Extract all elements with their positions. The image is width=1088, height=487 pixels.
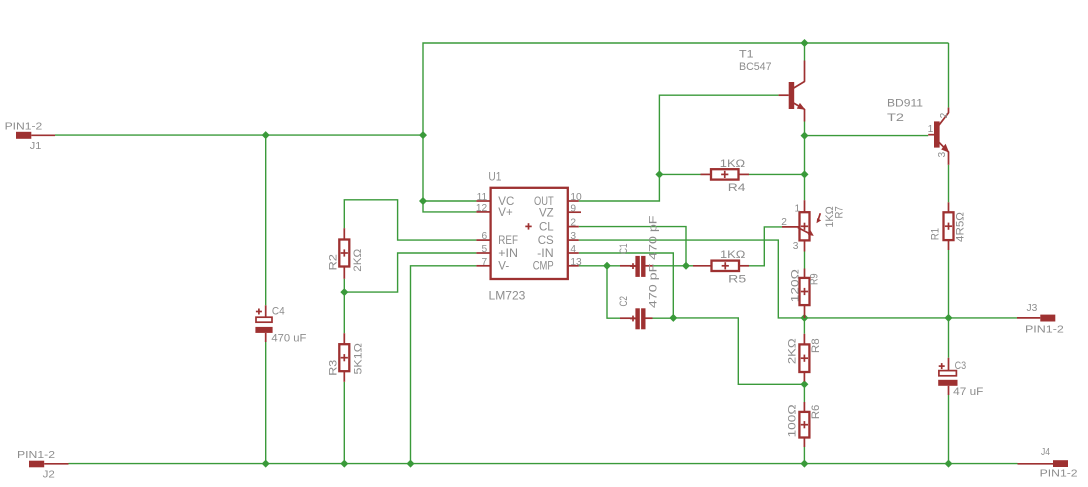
T2 pin number 1 [928,124,934,135]
label 4R5&#937; of R1 [954,212,966,242]
label 120&#937; of R9 [790,269,802,302]
svg-text:C3: C3 [955,360,967,372]
U1 pin label V+ [498,207,513,219]
wire R5 right to R7 wiper [749,227,782,266]
U1 pin label +IN [498,248,518,260]
wire C2 right short wire [653,317,674,319]
U1 pin label V- [498,261,509,273]
U1 pin 7 stub [476,265,490,267]
svg-text:2: 2 [781,217,787,228]
wire C3 top lead wire [948,318,950,358]
wire C1 left node to C1 [607,265,629,267]
label 2K&#937; of R2 [352,249,364,272]
U1 pin label CS [538,235,554,247]
connector J2 pad [29,461,69,468]
svg-text:C4: C4 [272,306,285,318]
svg-text:J2: J2 [43,470,56,481]
svg-text:10: 10 [570,192,582,203]
junction J3 row / R9-R8 column [800,314,808,322]
connector J1 pad [16,132,55,139]
wire C3 bottom to bottom rail [948,395,950,464]
U1 pin 13 stub [568,265,579,267]
svg-text:1KΩ: 1KΩ [720,249,745,261]
svg-text:1: 1 [928,124,934,135]
svg-text:2KΩ: 2KΩ [786,338,798,364]
label BC547 of T1 [739,61,772,73]
wire R4 right to T1 emitter column [749,173,805,175]
svg-text:5K1Ω: 5K1Ω [353,343,365,375]
svg-text:R6: R6 [810,405,822,420]
U1 error-amp + marker [525,223,531,229]
label J2 [43,470,56,481]
potentiometer R7 body [782,200,821,251]
wire U1 CL pin2 down to C1/R5 node [579,227,686,266]
svg-text:13: 13 [570,257,582,268]
resistor R9 body [800,269,810,318]
svg-text:CS: CS [538,235,554,247]
svg-text:T2: T2 [887,112,904,124]
svg-text:3: 3 [793,241,799,252]
svg-text:PIN1-2: PIN1-2 [5,122,43,133]
junction bottom rail / V- [407,460,415,468]
svg-text:100Ω: 100Ω [786,404,798,437]
label R9 [808,273,820,285]
wire C4 column lower (C4 to bottom rail) [265,342,267,464]
svg-text:LM723: LM723 [489,291,526,303]
connector J3 pad [1017,315,1055,322]
U1 pin 12 stub [476,211,490,213]
svg-text:J4: J4 [1041,447,1050,458]
label R5 [728,273,746,285]
svg-text:V-: V- [498,261,509,273]
junction bottom rail / R6 [800,460,808,468]
pin number 10 [570,192,582,203]
svg-text:J3: J3 [1027,303,1038,314]
label R4 [728,182,746,194]
R7 pin number 1 [795,204,801,215]
U1 pin 5 stub [476,252,490,254]
svg-text:1: 1 [795,204,801,215]
svg-text:R2: R2 [327,254,339,271]
resistor R2 body [339,228,349,279]
wire R5 left lead wire [686,265,693,267]
connector J4 pad [1018,460,1069,467]
wire T2 collector drop from top rail [948,43,950,108]
svg-text:R1: R1 [930,228,942,240]
wire T2 base horizontal [805,135,929,137]
op-amp regulator U1 body [491,188,568,279]
capacitor C1 body [620,256,653,277]
label C3 [955,360,967,372]
pin number 9 [570,203,576,214]
svg-text:VZ: VZ [539,207,554,219]
label R8 [810,338,822,353]
junction J1-row / x=423 column [419,131,427,139]
U1 pin label OUT [534,196,554,208]
svg-text:CMP: CMP [533,261,554,273]
resistor R4 body [701,169,750,179]
pin number 3 [570,231,576,242]
wire V+ column x=423 down to U1 pins 11/12 [423,135,476,212]
U1 pin 10 stub [568,200,579,202]
wire bottom rail (ground net) [69,463,1018,465]
label J4 [1041,447,1050,458]
wire J3 row to J3 pad stub [949,317,1018,319]
label J1 [30,141,42,152]
svg-text:R5: R5 [728,273,746,285]
R7 pin number 2 [781,217,787,228]
U1 pin label VC [498,196,514,208]
U1 pin label CMP [533,261,554,273]
wire C2 branch down from C1 node [607,266,629,318]
wire node to R6 top [803,384,805,402]
T2 pin number 2 [939,112,950,118]
U1 pin label REF [498,235,518,247]
wire R8 top short wire [803,318,805,334]
wire R4 row down to R7 top [804,174,806,200]
label J3 [1027,303,1038,314]
label R2 [327,254,339,271]
wire U1 pin 11 VC stub wire [423,200,476,202]
svg-text:3: 3 [937,151,948,157]
label BD911 of T2 [887,98,923,110]
junction bottom rail / C4 [262,460,270,468]
label R7 [834,206,846,218]
U1 pin 6 stub [476,239,490,241]
svg-text:47 uF: 47 uF [953,386,983,398]
svg-text:R9: R9 [808,273,820,285]
wire J1 net: J1 pad to junctions toward U1 V+ (horizontal y=135) [55,134,423,136]
wire R8 bottom to node [803,382,805,385]
wire T2 base node down to R4 row [804,136,806,175]
junction R2/R3/+IN node [340,288,348,296]
capacitor C3 body (polarized) [938,358,957,395]
wire T1 collector to top rail [804,43,806,61]
svg-text:11: 11 [477,192,488,203]
svg-text:R3: R3 [327,360,339,376]
label R3 [327,360,339,376]
pin number 4 [570,244,576,255]
resistor R8 body [799,334,809,382]
U1 pin 11 stub [476,200,490,202]
label LM723 [489,291,526,303]
U1 pin 3 stub [568,239,579,241]
label 100&#937; of R6 [786,404,798,437]
transistor T2 body (BD911) [928,108,949,165]
wire R6 bottom to bottom rail [803,447,805,464]
junction OUT column / R4 left [655,170,663,178]
wire U1 OUT pin10 to T1 base [579,95,779,201]
junction T1 emitter / T2 base node [801,132,809,140]
label C2 [618,296,630,307]
resistor R1 body [944,202,954,250]
svg-text:U1: U1 [488,171,501,183]
wire T2 emitter down to R1 [948,165,950,203]
label C4 [272,306,285,318]
junction R8/R6 node [800,380,808,388]
wire U1 CMP pin13 to C1 left node [579,265,607,267]
svg-text:2: 2 [939,112,950,118]
label R6 [810,405,822,420]
svg-text:4R5Ω: 4R5Ω [954,212,966,242]
label 1K&#937; of R4 [720,158,745,170]
svg-text:4: 4 [570,244,576,255]
svg-text:6: 6 [482,231,488,242]
svg-text:BC547: BC547 [739,61,772,73]
svg-text:470 pF: 470 pF [648,263,660,308]
U1 pin 4 stub [568,252,579,254]
junction C1 right / R5 left node [682,262,690,270]
svg-text:470 pF: 470 pF [648,215,660,260]
svg-text:J1: J1 [30,141,42,152]
U1 pin 9 stub [568,211,581,213]
label C1 [618,243,630,254]
label PIN1-2 of J4 [1040,469,1078,480]
svg-text:V+: V+ [498,207,513,219]
transistor T1 body (BC547) [779,61,806,122]
label 2K&#937; of R8 [786,338,798,364]
wire C4 column upper (J1 row to C4 +) [265,135,267,305]
wire U1 CS pin3 to J3 row [579,240,805,318]
wire C1 right to R5 node [653,265,687,267]
wire U1 +IN pin5 to R2/R3 node [344,253,476,292]
junction bottom rail / C3 [945,460,953,468]
svg-text:1KΩ: 1KΩ [720,158,745,170]
capacitor C4 body (polarized) [255,305,272,342]
label T1 [739,49,754,61]
label 5K1&#937; of R3 [353,343,365,375]
svg-text:OUT: OUT [534,196,554,208]
label 47 uF of C3 [953,386,983,398]
label 470 pF of C2 [648,263,660,308]
wire R4 left lead wire [659,173,700,175]
junction J3 row / R1-C3 column [945,314,953,322]
pin number 12 [476,203,488,214]
wire R7 bottom to R9 top [804,252,806,269]
svg-text:7: 7 [482,257,488,268]
wire U1 REF pin6 to R2 top [344,200,476,240]
svg-text:3: 3 [570,231,576,242]
U1 pin label -IN [537,248,554,260]
wire node to R3 top [343,292,345,333]
svg-text:-IN: -IN [537,248,554,260]
pin number 5 [482,244,488,255]
wire U1 -IN pin4 to C2 right node [579,253,674,318]
junction T1 emitter column / R4 right [801,170,809,178]
label 470 pF of C1 [648,215,660,260]
svg-text:T1: T1 [739,49,754,61]
pin number 2 [570,218,576,229]
resistor R6 body [799,402,809,447]
U1 pin label VZ [539,207,554,219]
svg-text:9: 9 [570,203,576,214]
label 1K&#937; of R5 [720,249,745,261]
svg-text:R8: R8 [810,338,822,353]
wire top rail from x=423 up and across to T2 collector column [423,43,949,135]
svg-text:CL: CL [539,222,554,234]
U1 pin label CL [539,222,554,234]
svg-text:R7: R7 [834,206,846,218]
svg-text:2KΩ: 2KΩ [352,249,364,272]
svg-text:12: 12 [476,203,488,214]
junction top rail / T1 collector [801,39,809,47]
svg-text:2: 2 [570,218,576,229]
pin number 11 [477,192,488,203]
label PIN1-2 of J3 [1025,324,1064,335]
junction C1 left / C2 branch node [603,262,611,270]
label 470 uF of C4 [271,333,306,345]
capacitor C2 body [620,308,653,329]
wire R3 bottom to bottom rail [343,382,345,464]
wire C2 node over to R8/R6 node [673,318,804,384]
svg-text:+IN: +IN [498,248,518,260]
svg-text:PIN1-2: PIN1-2 [1025,324,1064,335]
junction bottom rail / R3 [340,460,348,468]
wire U1 V- pin7 to bottom rail [411,266,477,464]
R7 pin number 3 [793,241,799,252]
junction J1-row / C4 column [262,131,270,139]
svg-text:PIN1-2: PIN1-2 [17,450,55,461]
label T2 [887,112,904,124]
wire T1 emitter down to T2 base node [804,122,806,136]
wire R2 bottom to node [343,279,345,292]
svg-text:C1: C1 [618,243,630,254]
pin number 13 [570,257,582,268]
pin number 6 [482,231,488,242]
label R1 [930,228,942,240]
label PIN1-2 of J2 [17,450,55,461]
U1 pin 2 stub [568,226,579,228]
svg-text:REF: REF [498,235,518,247]
resistor R5 body [693,261,749,271]
svg-text:470 uF: 470 uF [271,333,306,345]
pin number 7 [482,257,488,268]
svg-text:C2: C2 [618,296,630,307]
svg-text:PIN1-2: PIN1-2 [1040,469,1078,480]
label U1 [488,171,501,183]
svg-text:R4: R4 [728,182,746,194]
junction C2 right / -IN node [669,314,677,322]
resistor R3 body [339,333,349,382]
svg-text:5: 5 [482,244,488,255]
wire J3 row middle segment [804,317,948,319]
label PIN1-2 of J1 [5,122,43,133]
svg-text:120Ω: 120Ω [790,269,802,302]
label 1K&#937; of R7 [824,206,836,228]
junction x=423 / pin11 row [419,197,427,205]
wire R1 bottom to J3 row [948,250,950,318]
T2 pin number 3 [937,151,948,157]
svg-text:BD911: BD911 [887,98,923,110]
